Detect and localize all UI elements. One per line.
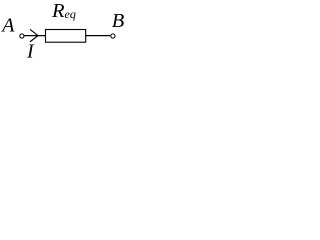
svg-text:B: B	[112, 10, 125, 32]
terminal right	[111, 34, 115, 38]
terminal left	[20, 34, 24, 38]
wire	[86, 35, 111, 37]
svg-text:I: I	[26, 41, 35, 63]
current arrow	[30, 30, 38, 42]
wire	[24, 35, 45, 37]
svg-text:A: A	[0, 15, 15, 37]
resistor Req	[46, 30, 86, 43]
